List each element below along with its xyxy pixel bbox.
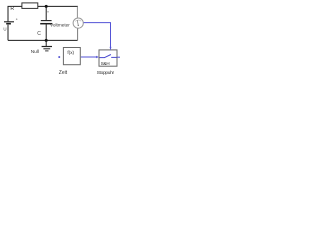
node junction bottom [45, 39, 48, 42]
svg-text:S&H: S&H [101, 61, 110, 66]
ground [42, 40, 52, 51]
node junction top [45, 5, 48, 8]
wire capacitor bottom leg [45, 24, 47, 40]
polarity + battery [16, 18, 18, 20]
svg-text:C: C [37, 31, 41, 37]
voltmeter M1 [73, 18, 83, 28]
terminal blue input dot [58, 56, 60, 58]
svg-text:Zeit: Zeit [59, 70, 68, 76]
wire blue voltmeter to stopwatch [84, 23, 111, 48]
svg-text:Null: Null [31, 49, 39, 55]
wire left lower [7, 25, 9, 41]
polarity + capacitor [47, 11, 49, 13]
svg-text:R: R [10, 6, 14, 12]
wire gray vertical meter bottom [77, 29, 79, 41]
block Zeit f(x) [63, 48, 80, 65]
arrowhead into stopwatch [110, 47, 112, 51]
block Stoppuhr S&H [99, 50, 117, 66]
wire resistor to top-right corner [38, 5, 78, 7]
wire blue f(x) to S&H with arrowhead [81, 56, 99, 59]
capacitor C [40, 21, 52, 24]
svg-text:Voltmeter: Voltmeter [50, 23, 70, 28]
battery U [4, 22, 14, 24]
wire capacitor top leg [45, 6, 47, 20]
wire blue output stub [117, 56, 120, 58]
switch inside S&H [99, 55, 116, 58]
resistor R [22, 3, 38, 8]
wire gray vertical meter top [76, 6, 78, 18]
wire left+top from battery up to resistor [8, 6, 22, 21]
wire bottom [8, 39, 78, 41]
svg-text:f(x): f(x) [67, 50, 74, 55]
svg-text:Stoppuhr: Stoppuhr [97, 70, 115, 76]
svg-text:U: U [3, 27, 6, 32]
